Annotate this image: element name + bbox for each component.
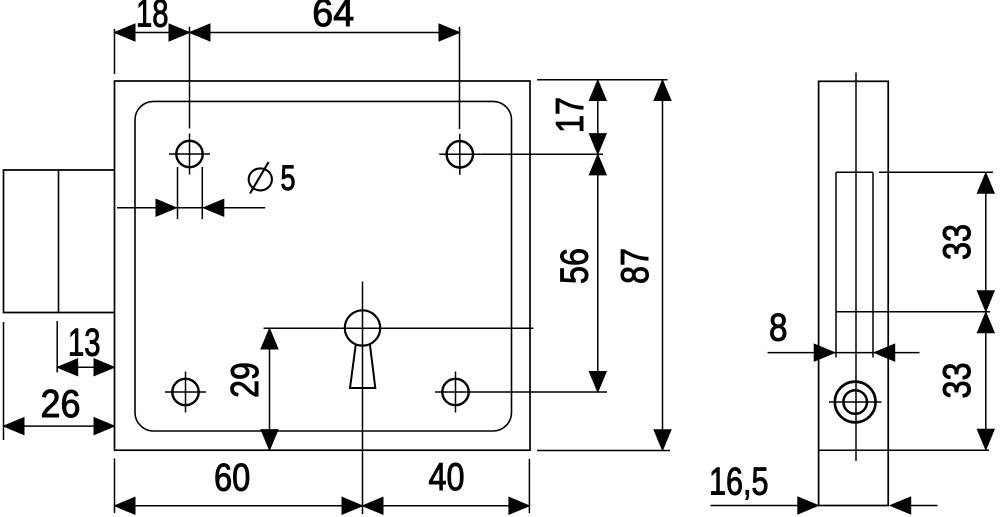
dim line 87 <box>662 80 664 451</box>
ext line 26 <box>3 322 5 440</box>
svg-text:33: 33 <box>936 224 979 260</box>
slot bottom line + extension <box>836 311 990 313</box>
dim 18/64 extension: plate left edge up <box>114 29 116 74</box>
keyhole horizontal centerline <box>264 327 534 329</box>
screw hole top-left <box>176 141 202 167</box>
dim line 13 <box>57 366 114 368</box>
dim line 17/56 <box>597 80 599 392</box>
svg-text:13: 13 <box>68 322 101 365</box>
svg-text:8: 8 <box>769 307 788 350</box>
bolt divider line <box>58 170 60 313</box>
dim 16,5 right line <box>890 497 911 514</box>
extension line hole TR up <box>459 27 461 129</box>
dim line 60/40 <box>115 505 530 507</box>
screw hole bottom-left <box>172 379 198 405</box>
side slot left <box>835 172 837 357</box>
diameter symbol <box>249 168 272 190</box>
svg-text:26: 26 <box>41 383 81 426</box>
screw hole top-right <box>447 141 473 167</box>
dim 16,5 left line <box>711 505 799 507</box>
side view outer rect <box>819 81 889 505</box>
slot top extension right <box>879 171 993 173</box>
ext line 13 <box>56 321 58 373</box>
svg-text:64: 64 <box>312 0 354 35</box>
hole BR line to right <box>476 391 607 393</box>
side slot right <box>872 172 874 357</box>
side hole inner <box>843 390 867 414</box>
svg-text:33: 33 <box>936 363 979 399</box>
dim line 8 <box>768 352 920 354</box>
svg-text:87: 87 <box>614 248 657 284</box>
dim line 29 <box>269 328 271 450</box>
svg-text:60: 60 <box>214 457 250 500</box>
dia 5 dimension line <box>117 207 265 209</box>
svg-text:16,5: 16,5 <box>709 461 769 504</box>
top edge extension right <box>537 79 668 81</box>
side view centerline <box>855 73 857 462</box>
bolt left <box>4 170 115 313</box>
dim line 33/33 <box>985 172 987 450</box>
svg-text:56: 56 <box>554 248 597 284</box>
keyhole vertical centerline <box>362 282 364 515</box>
side slot top <box>836 171 873 173</box>
screw hole bottom-right <box>442 379 468 405</box>
side hole outer <box>835 382 876 423</box>
side lock bottom line <box>819 449 989 451</box>
bottom edge extension right <box>537 450 670 452</box>
svg-text:5: 5 <box>281 159 296 198</box>
outer plate front view <box>115 81 531 450</box>
dim line 26 <box>4 425 115 427</box>
svg-text:29: 29 <box>224 362 267 398</box>
hole TR line to right <box>481 153 604 155</box>
side hole horizontal line <box>829 401 882 403</box>
inner rounded plate <box>135 101 512 431</box>
dia 5 extension lines <box>177 167 179 219</box>
keyhole circle <box>345 310 380 345</box>
keyhole slot <box>350 344 375 388</box>
bottom ext right <box>528 459 530 513</box>
dimension line 18/64 <box>115 32 460 34</box>
svg-text:18: 18 <box>136 0 169 36</box>
bottom ext left <box>114 459 116 514</box>
svg-text:40: 40 <box>429 456 465 499</box>
svg-text:17: 17 <box>549 97 592 133</box>
extension line hole TL up <box>189 27 191 129</box>
